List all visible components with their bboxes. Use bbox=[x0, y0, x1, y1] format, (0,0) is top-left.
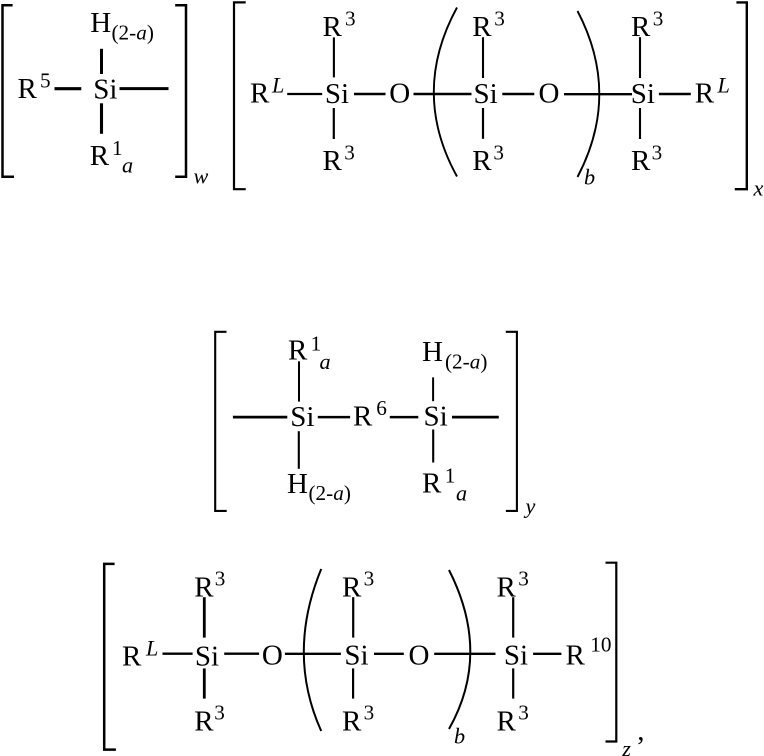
svg-text:R: R bbox=[353, 400, 373, 432]
parenthesis open X bbox=[434, 8, 457, 177]
bond O1-Si2 Z bbox=[285, 653, 341, 655]
svg-text:(2-a): (2-a) bbox=[445, 349, 487, 373]
svg-text:Si: Si bbox=[195, 640, 219, 672]
svg-text:,: , bbox=[637, 715, 644, 747]
bond Si1 up bbox=[333, 37, 335, 77]
bond Si1 down Z bbox=[203, 668, 206, 698]
svg-text:R: R bbox=[323, 145, 343, 177]
svg-text:H: H bbox=[90, 7, 111, 39]
svg-text:Si: Si bbox=[631, 78, 655, 110]
svg-text:z: z bbox=[621, 736, 631, 756]
svg-text:Si: Si bbox=[474, 78, 498, 110]
bond Si3-RL bbox=[659, 93, 691, 95]
svg-text:L: L bbox=[145, 635, 158, 660]
parenthesis close X bbox=[578, 11, 600, 177]
svg-text:a: a bbox=[122, 153, 133, 178]
svg-text:5: 5 bbox=[40, 68, 51, 92]
bond SiR up bbox=[432, 377, 434, 401]
bond R6-SiR bbox=[390, 416, 419, 419]
svg-text:3: 3 bbox=[215, 567, 226, 591]
svg-text:R: R bbox=[194, 706, 214, 738]
svg-text:R: R bbox=[194, 572, 214, 604]
bond O2-Si3 bbox=[564, 93, 632, 95]
svg-text:L: L bbox=[717, 72, 730, 97]
bond Si2 down bbox=[482, 108, 484, 139]
svg-text:3: 3 bbox=[518, 700, 529, 724]
bond Si2 down Z bbox=[352, 668, 354, 698]
svg-text:3: 3 bbox=[345, 6, 356, 30]
bond Si-right W bbox=[120, 87, 169, 90]
svg-text:3: 3 bbox=[344, 140, 355, 164]
svg-text:R: R bbox=[472, 145, 492, 177]
bond Si2-O2 bbox=[502, 93, 534, 95]
bracket right Y bbox=[506, 332, 517, 511]
bond Si1 down bbox=[333, 108, 335, 139]
svg-text:y: y bbox=[524, 494, 536, 519]
svg-text:H: H bbox=[287, 468, 308, 500]
svg-text:L: L bbox=[271, 72, 284, 97]
bond O1-Si2 bbox=[414, 93, 472, 95]
bond SiR-right Y bbox=[452, 416, 499, 419]
bracket left Z bbox=[104, 564, 116, 750]
parenthesis open Z bbox=[304, 569, 321, 731]
bracket left X bbox=[234, 2, 246, 189]
bond O2-Si3 Z bbox=[434, 653, 495, 655]
svg-text:R: R bbox=[695, 77, 715, 109]
bond R5-Si bbox=[55, 87, 82, 90]
bracket right Z bbox=[606, 563, 617, 742]
bracket right X bbox=[735, 2, 747, 189]
svg-text:R: R bbox=[250, 77, 270, 109]
svg-text:b: b bbox=[584, 165, 595, 190]
svg-text:R: R bbox=[342, 706, 362, 738]
svg-text:w: w bbox=[194, 164, 209, 189]
svg-text:a: a bbox=[320, 349, 331, 374]
svg-text:O: O bbox=[539, 77, 560, 109]
svg-text:Si: Si bbox=[424, 400, 448, 432]
svg-text:Si: Si bbox=[504, 640, 528, 672]
svg-text:1: 1 bbox=[445, 463, 456, 487]
svg-text:O: O bbox=[262, 640, 283, 672]
svg-text:Si: Si bbox=[93, 73, 117, 105]
svg-text:6: 6 bbox=[376, 396, 387, 420]
bond Si2-O2 Z bbox=[374, 653, 404, 655]
bond Si3 down bbox=[639, 108, 641, 139]
svg-text:R: R bbox=[90, 140, 110, 172]
svg-text:x: x bbox=[753, 176, 764, 201]
svg-text:R: R bbox=[631, 11, 651, 43]
svg-text:3: 3 bbox=[214, 700, 225, 724]
svg-text:(2-a): (2-a) bbox=[112, 21, 154, 45]
parenthesis close Z bbox=[449, 570, 470, 729]
svg-text:R: R bbox=[497, 706, 517, 738]
bond RL-Si1 Z bbox=[163, 653, 193, 655]
svg-text:3: 3 bbox=[652, 140, 663, 164]
bond SiL down bbox=[298, 431, 300, 469]
bond Si3 down Z bbox=[512, 668, 514, 698]
svg-text:R: R bbox=[323, 11, 343, 43]
svg-text:3: 3 bbox=[494, 6, 505, 30]
bond Si1-O1 Z bbox=[224, 653, 259, 655]
bond Si-R1 vertical bbox=[100, 103, 103, 134]
svg-text:R: R bbox=[18, 73, 38, 105]
svg-text:R: R bbox=[566, 640, 586, 672]
svg-text:R: R bbox=[342, 572, 362, 604]
bond Si-H vertical bbox=[100, 49, 103, 74]
bond Si3 up bbox=[639, 37, 641, 78]
svg-text:R: R bbox=[472, 11, 492, 43]
svg-text:b: b bbox=[454, 723, 465, 748]
svg-text:3: 3 bbox=[493, 140, 504, 164]
svg-text:R: R bbox=[288, 335, 308, 367]
svg-text:10: 10 bbox=[590, 633, 611, 657]
svg-text:3: 3 bbox=[518, 567, 529, 591]
bond SiR down bbox=[432, 430, 434, 463]
svg-text:3: 3 bbox=[653, 6, 664, 30]
bond RL-Si1 bbox=[287, 93, 322, 95]
svg-text:O: O bbox=[409, 639, 430, 671]
svg-text:Si: Si bbox=[344, 640, 368, 672]
svg-text:R: R bbox=[631, 145, 651, 177]
bond Si1-O1 bbox=[354, 93, 386, 95]
svg-text:R: R bbox=[497, 572, 517, 604]
bracket left Y bbox=[215, 332, 227, 511]
bond SiL-R6 bbox=[318, 416, 350, 419]
bond Si2 up Z bbox=[352, 597, 354, 637]
bond Si2 up bbox=[482, 37, 484, 78]
svg-text:Si: Si bbox=[325, 78, 349, 110]
bond Si3-R10 Z bbox=[533, 653, 561, 655]
bracket left W bbox=[3, 5, 15, 177]
svg-text:3: 3 bbox=[364, 700, 375, 724]
svg-text:R: R bbox=[122, 640, 142, 672]
svg-text:O: O bbox=[389, 77, 410, 109]
bond Si3 up Z bbox=[512, 597, 514, 637]
bond SiL up bbox=[298, 361, 300, 401]
svg-text:R: R bbox=[422, 467, 442, 499]
bond lead-in Y bbox=[233, 416, 287, 419]
bond Si1 up Z bbox=[203, 597, 206, 637]
svg-text:H: H bbox=[422, 336, 443, 368]
svg-text:3: 3 bbox=[364, 567, 375, 591]
svg-text:Si: Si bbox=[290, 401, 314, 433]
svg-text:(2-a): (2-a) bbox=[309, 481, 351, 505]
svg-text:a: a bbox=[456, 481, 467, 506]
svg-text:1: 1 bbox=[112, 136, 123, 160]
bracket right W bbox=[175, 5, 186, 177]
